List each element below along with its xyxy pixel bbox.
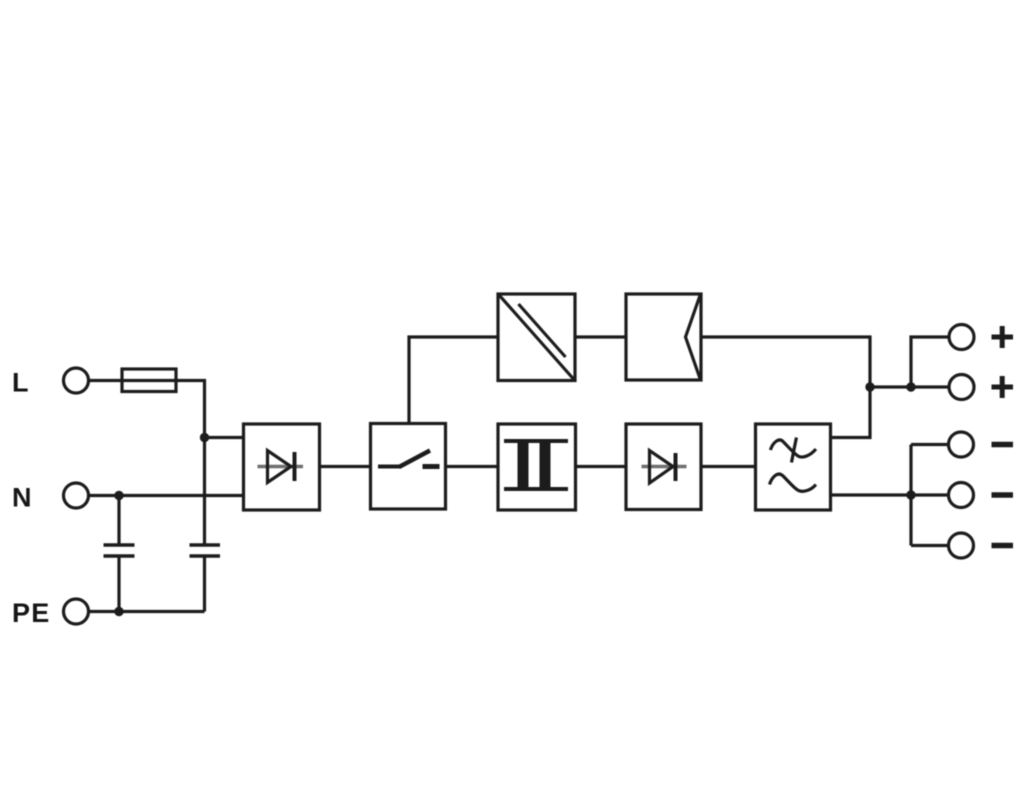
node PE junction <box>114 607 123 616</box>
wire stub to minus terminal 3 <box>911 544 948 547</box>
terminal minus 2 <box>949 483 974 508</box>
wire rectifier to switch <box>320 465 371 468</box>
wire N to rectifier bottom input <box>89 494 244 497</box>
filter crossed sine symbol <box>770 438 816 463</box>
plus sign 2 <box>992 376 1014 398</box>
wire fuse to corner <box>176 381 205 438</box>
fuse F1 <box>122 369 176 392</box>
wire junction to rectifier top input <box>205 436 244 439</box>
wire junction B to plus terminal 2 <box>911 385 949 388</box>
diode block U4 <box>626 424 701 510</box>
node plus junction B <box>906 382 915 391</box>
terminal N <box>64 483 89 508</box>
terminal plus 1 <box>949 325 974 350</box>
wire isolation to control block <box>575 335 626 338</box>
filter block U5 <box>756 424 831 510</box>
terminal PE <box>64 599 89 624</box>
wire L-branch down to capacitor C2 <box>203 438 206 546</box>
svg-text:PE: PE <box>12 598 51 628</box>
wire stub to minus terminal 1 <box>911 443 948 446</box>
rectifier block U1 <box>244 424 320 510</box>
terminal L <box>64 368 89 393</box>
minus sign 2 <box>992 492 1014 498</box>
node plus junction A <box>865 382 874 391</box>
diode D2 <box>642 451 687 484</box>
wire junction B to plus terminal 1 <box>911 337 949 387</box>
wire stub to minus terminal 2 <box>911 493 948 496</box>
capacitor C2 <box>190 545 221 612</box>
isolation block U6 <box>498 294 575 381</box>
switch S1 <box>378 451 440 468</box>
minus sign 3 <box>992 543 1014 549</box>
transformer block U3 <box>498 424 576 510</box>
rectifier diode D1 <box>258 451 304 483</box>
transformer T1 <box>504 441 568 489</box>
wire junction A to junction B <box>870 385 911 388</box>
svg-text:N: N <box>12 483 32 513</box>
control block U7 <box>626 294 701 380</box>
wire diode block to filter <box>701 465 756 468</box>
minus sign 1 <box>992 442 1014 448</box>
wire L terminal to fuse <box>89 379 123 382</box>
wire transformer to diode block <box>576 465 627 468</box>
filter sine symbol <box>770 474 816 491</box>
wire minus bus <box>909 445 912 546</box>
control chevron symbol <box>686 296 701 379</box>
terminal minus 1 <box>949 432 974 457</box>
wire PE line <box>89 610 205 613</box>
wire control block to output node <box>701 337 870 438</box>
terminal minus 3 <box>949 533 974 558</box>
wire switch to transformer <box>446 465 499 468</box>
isolation diagonal lines <box>500 296 574 380</box>
capacitor C1 <box>104 496 135 612</box>
wire filter bottom output <box>831 493 911 496</box>
svg-text:L: L <box>12 368 29 398</box>
node minus junction <box>906 490 915 499</box>
plus sign 1 <box>992 326 1014 348</box>
switch block U2 <box>371 424 446 510</box>
wire switch top to feedback line <box>409 337 498 424</box>
terminal plus 2 <box>949 375 974 400</box>
node L-branch junction <box>200 433 209 442</box>
node N junction <box>114 491 123 500</box>
